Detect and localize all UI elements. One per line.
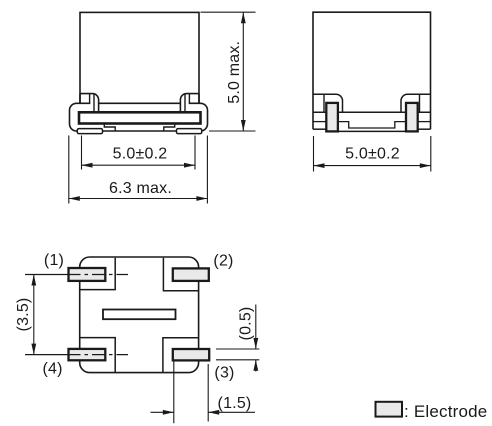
dimension 1.5 arrows <box>163 410 219 415</box>
dimension 0.5 arrows <box>253 338 258 371</box>
front view left hook inner line 2 <box>93 94 95 113</box>
dimension 6.3 max extension lines <box>69 136 208 204</box>
legend electrode box <box>376 402 403 417</box>
front view right inner step <box>164 124 175 132</box>
side view bottom right line <box>418 121 431 123</box>
side view left shoulder <box>313 94 343 112</box>
bottom view body <box>80 257 199 373</box>
front view left foot <box>77 129 102 134</box>
dimension 0.5 extension lines <box>216 349 259 360</box>
dimension 6.3 max arrows <box>69 196 208 201</box>
front view left hook inner line 1 <box>89 94 91 104</box>
side view bottom center edge <box>326 130 417 132</box>
dimension 3.5 line <box>33 275 35 355</box>
svg-text:(1): (1) <box>44 252 64 269</box>
front view base flange <box>70 103 208 131</box>
dimension 5.0 max arrows <box>241 12 246 131</box>
front view right hook inner line 2 <box>184 94 186 113</box>
dimension 5.0 max extension lines <box>201 12 256 131</box>
bottom view center slot <box>103 310 176 320</box>
dimension 1.5 line right <box>208 411 255 413</box>
dimension 5.0±0.2 front extension lines <box>82 136 196 170</box>
dimension 5.0 max line <box>242 12 244 131</box>
front view right terminal hook fill <box>181 94 189 111</box>
dimension 5.0±0.2 front line <box>82 164 196 166</box>
front view left inner step <box>104 124 115 132</box>
front view body <box>80 12 199 103</box>
svg-text:5.0±0.2: 5.0±0.2 <box>113 145 168 162</box>
bottom view bottom-left post <box>80 338 116 372</box>
side view right electrode pad <box>406 103 418 131</box>
side view left electrode pad <box>326 103 338 131</box>
dimension 5.0±0.2 front arrows <box>82 163 196 168</box>
dimension 1.5 line left <box>151 411 174 413</box>
side view left step vertical <box>323 94 325 112</box>
svg-text:(0.5): (0.5) <box>238 307 255 341</box>
bottom view bottom-right post <box>163 338 199 372</box>
dimension 5.0±0.2 side extension lines <box>314 136 431 172</box>
terminal 4 centerline <box>25 354 68 356</box>
front view terminal bar <box>79 112 201 123</box>
side view body <box>313 12 431 129</box>
svg-text:(3.5): (3.5) <box>15 298 32 332</box>
terminal 3 <box>173 349 209 360</box>
side view bottom left line <box>313 121 326 123</box>
bottom view top-right post <box>163 258 198 291</box>
svg-text:(2): (2) <box>213 253 233 270</box>
side view right shoulder <box>401 94 431 112</box>
side view bottom left edge <box>313 128 327 130</box>
dimension 6.3 max line <box>69 198 208 200</box>
front view left terminal hook fill <box>90 94 98 111</box>
front view right hook inner line 1 <box>188 94 190 104</box>
side view terminal bar line <box>313 111 431 113</box>
terminal 1 <box>69 268 106 281</box>
dimension 3.5 arrows <box>31 275 36 355</box>
svg-text:5.0 max.: 5.0 max. <box>226 41 243 104</box>
front view right foot <box>177 129 202 134</box>
terminal 2 <box>173 268 209 281</box>
front view left terminal hook outline <box>80 94 99 113</box>
bottom view top-left post <box>80 258 116 290</box>
side view right step vertical <box>419 94 421 112</box>
terminal 1 centerline <box>25 274 68 276</box>
dimension 5.0±0.2 side arrows <box>314 163 431 168</box>
dimension 1.5 extension lines <box>174 362 208 424</box>
front view body right edge lower <box>198 94 200 104</box>
dimension 5.0±0.2 side line <box>314 165 431 167</box>
svg-text:: Electrode: : Electrode <box>404 402 487 421</box>
front view body left edge lower <box>79 94 81 104</box>
svg-text:5.0±0.2: 5.0±0.2 <box>345 145 400 162</box>
terminal 4 <box>69 349 106 360</box>
svg-text:(1.5): (1.5) <box>218 395 252 412</box>
svg-text:(3): (3) <box>214 365 234 382</box>
dimension 0.5 line lower <box>255 360 257 372</box>
dimension 0.5 line upper <box>255 305 257 350</box>
side view bottom right edge <box>417 128 431 130</box>
front view right terminal hook outline <box>180 94 199 113</box>
svg-text:(4): (4) <box>43 361 63 378</box>
side view bottom center steps <box>338 122 406 128</box>
svg-text:6.3 max.: 6.3 max. <box>109 180 172 197</box>
